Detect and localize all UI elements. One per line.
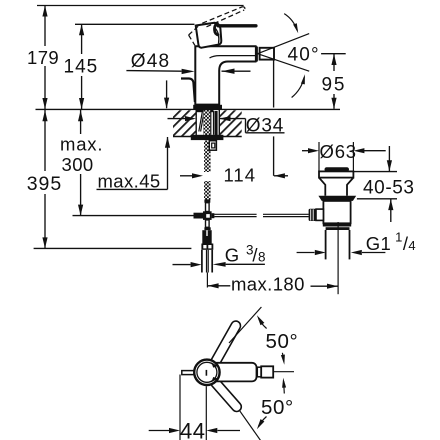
svg-text:max.45: max.45 bbox=[98, 171, 161, 192]
svg-text:179: 179 bbox=[27, 47, 59, 68]
svg-text:114: 114 bbox=[224, 164, 257, 185]
svg-text:44: 44 bbox=[180, 419, 205, 440]
svg-text:Ø48: Ø48 bbox=[131, 51, 171, 72]
svg-text:max.180: max.180 bbox=[231, 274, 305, 295]
svg-text:300: 300 bbox=[62, 154, 94, 175]
svg-text:40-53: 40-53 bbox=[363, 178, 415, 199]
svg-text:50°: 50° bbox=[266, 330, 299, 353]
svg-text:95: 95 bbox=[322, 74, 347, 95]
svg-text:395: 395 bbox=[27, 173, 63, 195]
svg-text:max.: max. bbox=[60, 134, 103, 155]
svg-text:Ø63: Ø63 bbox=[320, 141, 357, 162]
svg-text:145: 145 bbox=[64, 57, 99, 78]
svg-text:Ø34: Ø34 bbox=[246, 115, 284, 136]
svg-text:40°: 40° bbox=[288, 44, 320, 65]
svg-text:50°: 50° bbox=[261, 396, 294, 419]
